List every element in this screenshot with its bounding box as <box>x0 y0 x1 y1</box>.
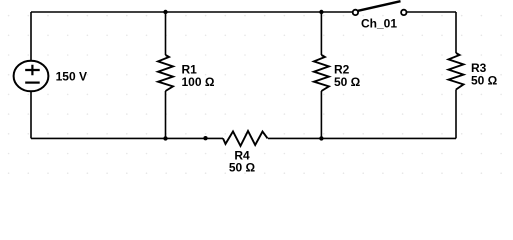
grid dots <box>8 15 502 174</box>
voltage source V1 circle <box>14 61 49 92</box>
resistor R3 <box>449 53 464 90</box>
svg-text:50 Ω: 50 Ω <box>229 161 256 175</box>
wire R2 bottom lead <box>320 91 322 138</box>
junction node R2 bottom <box>319 136 323 140</box>
resistor R1 <box>158 55 173 91</box>
svg-text:150 V: 150 V <box>56 70 87 84</box>
switch Ch_01 left contact <box>353 10 358 15</box>
junction node R1 bottom <box>163 136 167 140</box>
wire R1 bottom lead <box>165 91 167 138</box>
junction node R2 top <box>319 10 323 14</box>
switch Ch_01 lever <box>358 1 401 11</box>
junction node R4 left <box>203 136 207 140</box>
wire bottom rail right segment <box>268 137 456 139</box>
wire R3 top lead <box>455 12 457 53</box>
svg-text:50 Ω: 50 Ω <box>334 75 361 89</box>
voltage source minus sign <box>25 81 40 83</box>
svg-text:Ch_01: Ch_01 <box>361 17 397 31</box>
voltage source plus sign <box>25 65 40 75</box>
wire R2 top lead <box>320 12 322 55</box>
wire R1 top lead <box>165 12 167 55</box>
resistor R2 <box>314 55 329 91</box>
resistor R4 <box>223 131 268 146</box>
junction node R1 top <box>163 10 167 14</box>
wire R3 bottom lead <box>455 90 457 139</box>
svg-text:100 Ω: 100 Ω <box>182 75 215 89</box>
svg-text:50 Ω: 50 Ω <box>471 74 498 88</box>
wire bottom rail left segment <box>31 137 223 139</box>
wire left branch top <box>30 12 32 61</box>
switch Ch_01 right contact <box>401 10 406 15</box>
wire top rail left segment <box>31 11 353 13</box>
wire top rail right segment <box>406 11 456 13</box>
wire left branch bottom <box>30 91 32 138</box>
